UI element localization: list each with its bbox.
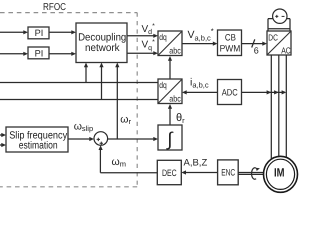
svg-text:A,B,Z: A,B,Z bbox=[184, 158, 208, 169]
arrowhead into DC/AC bbox=[262, 42, 267, 46]
arrowhead Vq* into dq1 bbox=[153, 51, 158, 55]
RFOC dashed boundary top bbox=[0, 12, 137, 14]
arrowhead wslip into summer bbox=[89, 137, 94, 141]
wire: summer to integrator bbox=[108, 138, 155, 140]
arrowhead into slip input 2 bbox=[1, 143, 6, 147]
arrowhead into PI1 bbox=[23, 30, 28, 34]
arrowhead into slip input 1 bbox=[1, 133, 6, 137]
DC source bbox=[268, 9, 290, 31]
arrowhead wr into decoupling bottom bbox=[115, 63, 119, 68]
summing junction bbox=[94, 132, 108, 146]
svg-text:PI: PI bbox=[35, 28, 44, 38]
svg-text:ADC: ADC bbox=[222, 88, 238, 98]
arrowhead into decoupling q input bbox=[71, 52, 76, 56]
PI box 1 bbox=[28, 27, 49, 39]
arrowhead into decoupling d input bbox=[71, 30, 76, 34]
svg-text:DEC: DEC bbox=[162, 168, 177, 178]
svg-text:abc: abc bbox=[169, 45, 181, 55]
CB PWM box bbox=[218, 30, 242, 56]
wire: Vabc* dq1 to CB PWM bbox=[182, 43, 214, 45]
dq to abc block U1 bbox=[158, 31, 182, 56]
arrowhead tap phase b bbox=[274, 90, 279, 94]
RFOC dashed boundary right bbox=[136, 13, 138, 187]
DC/AC inverter box bbox=[267, 31, 291, 55]
svg-text:RFOC: RFOC bbox=[43, 2, 66, 13]
svg-text:estimation: estimation bbox=[19, 140, 58, 151]
svg-text:dq: dq bbox=[159, 80, 167, 90]
ADC box bbox=[218, 80, 242, 105]
wire: id branch to decoupling bbox=[85, 66, 87, 83]
arrowhead into integrator bbox=[153, 137, 158, 141]
Slip frequency estimation box bbox=[6, 127, 68, 152]
wire: Vq* decoupling to dq1 bbox=[127, 52, 155, 54]
abc to dq block U2 bbox=[158, 79, 182, 104]
arrowhead theta into dq2 bottom bbox=[168, 104, 172, 109]
arrowhead tap phase a bbox=[267, 90, 272, 94]
induction motor IM bbox=[264, 156, 298, 192]
DEC box bbox=[157, 160, 181, 184]
wire: integrator to dq2 theta bbox=[169, 108, 171, 126]
arrowhead id into decoupling bottom bbox=[84, 63, 88, 68]
wire: dq2 to dq1 theta bbox=[169, 60, 171, 80]
svg-text:ENC: ENC bbox=[221, 168, 235, 178]
wire: PI1 to decoupling network bbox=[49, 31, 73, 33]
svg-text:dq: dq bbox=[159, 32, 167, 42]
arrowhead Vabc* into CB PWM bbox=[213, 42, 218, 46]
wire: slip estimation input 1 bbox=[0, 134, 3, 136]
arrowhead ABZ into DEC bbox=[181, 170, 186, 174]
svg-text:CB: CB bbox=[225, 33, 236, 43]
wire: wm DEC to summer horizontal bbox=[100, 172, 157, 174]
wire: slip estimation input 2 bbox=[0, 144, 3, 146]
arrowhead iq into decoupling bottom bbox=[99, 63, 103, 68]
svg-text:network: network bbox=[85, 42, 120, 54]
wire: ADC to dq2 bbox=[186, 91, 218, 93]
arrowhead wm into summer bottom bbox=[99, 145, 103, 150]
svg-text:PI: PI bbox=[35, 48, 44, 58]
integrator block bbox=[158, 125, 182, 151]
wire: slip estimation to summer bbox=[68, 138, 91, 140]
wire: reference input to PI 2 bbox=[0, 53, 25, 55]
wire: wr branch to decoupling bbox=[116, 66, 118, 139]
arrowhead tap phase c bbox=[282, 90, 287, 94]
3-phase line a bbox=[270, 55, 272, 160]
wire: Vd* decoupling to dq1 bbox=[127, 35, 155, 37]
wire: ENC to DEC bbox=[185, 172, 218, 174]
PI box 2 bbox=[28, 47, 49, 59]
bus width slash marker bbox=[252, 39, 255, 47]
arrowhead Vd* into dq1 bbox=[153, 34, 158, 38]
wire: wm vertical into summer bbox=[99, 149, 101, 173]
svg-text:abc: abc bbox=[169, 93, 181, 103]
arrowhead theta into dq1 bottom bbox=[168, 56, 172, 61]
svg-text:DC: DC bbox=[268, 33, 278, 43]
3-phase line c bbox=[285, 55, 287, 160]
arrowhead iabc into dq2 bbox=[182, 90, 187, 94]
ENC box bbox=[218, 160, 239, 185]
svg-text:AC: AC bbox=[281, 45, 291, 55]
shaft coupling bbox=[238, 168, 264, 179]
svg-text:IM: IM bbox=[274, 165, 285, 179]
3-phase line b bbox=[278, 55, 280, 158]
svg-text:6: 6 bbox=[254, 46, 259, 56]
Decoupling network box bbox=[76, 23, 127, 63]
wire: CB PWM to DC/AC bbox=[242, 43, 264, 45]
wire: ADC current taps bbox=[242, 91, 286, 93]
wire: PI2 to decoupling network bbox=[49, 53, 73, 55]
wire: id feedback bbox=[0, 82, 158, 84]
wire: iq branch to decoupling bbox=[101, 66, 103, 100]
svg-text:PWM: PWM bbox=[220, 43, 241, 53]
RFOC dashed boundary bottom bbox=[0, 186, 137, 188]
wire: iq feedback bbox=[0, 99, 158, 101]
wire: reference input to PI 1 bbox=[0, 31, 25, 33]
arrowhead into PI2 bbox=[23, 52, 28, 56]
